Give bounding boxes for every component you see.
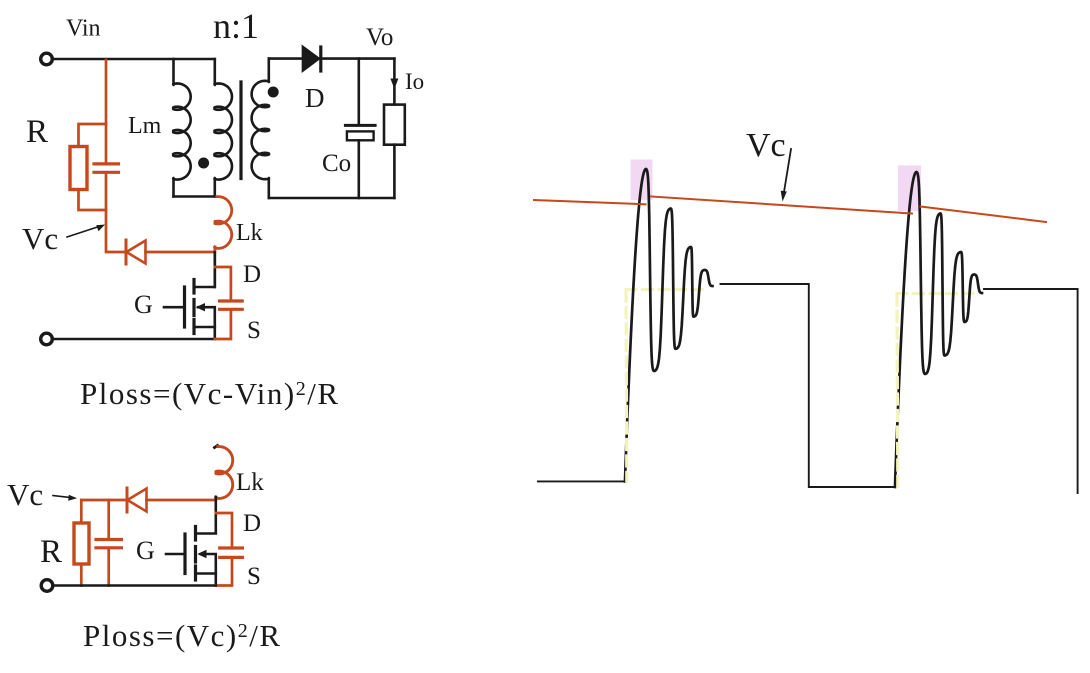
waveform square wave (538, 480, 625, 482)
svg-text:G: G (136, 536, 155, 565)
waveform ringing pulse 2 (895, 172, 982, 487)
wire Vin rail (53, 58, 215, 61)
wire bottom rail (53, 338, 215, 341)
svg-text:D: D (305, 83, 325, 113)
transistor Q1 MOSFET (164, 253, 215, 340)
transformer secondary winding (252, 59, 269, 198)
capacitor across MOSFET (bottom circuit) (216, 513, 232, 586)
svg-text:Lk: Lk (236, 469, 264, 496)
svg-text:Vc: Vc (7, 477, 43, 512)
svg-text:n:1: n:1 (213, 6, 259, 46)
svg-text:Vo: Vo (366, 24, 393, 51)
wire diode to drain node (146, 251, 215, 254)
diode D output (black filled, pointing right) (302, 46, 319, 72)
svg-text:R: R (40, 534, 62, 570)
svg-text:Vc: Vc (22, 221, 58, 256)
capacitor Co (357, 59, 360, 124)
svg-text:G: G (134, 290, 153, 319)
wire secondary bottom rail (269, 197, 395, 200)
wire transformer primary bottom (174, 195, 215, 198)
svg-text:R: R (26, 114, 48, 150)
svg-text:Ploss=(Vc)2/R: Ploss=(Vc)2/R (83, 618, 282, 653)
dashed rising edge marker pulse 2 (895, 295, 899, 487)
svg-text:Io: Io (405, 69, 424, 94)
diode D snubber (orange, pointing left) (125, 240, 128, 264)
dashed rising edge marker pulse 1 (624, 291, 628, 481)
highlight box spike 2 (898, 165, 921, 211)
svg-text:Ploss=(Vc-Vin)2/R: Ploss=(Vc-Vin)2/R (80, 376, 340, 411)
inductor Lk (leakage) (215, 197, 232, 249)
wire secondary top rail (269, 57, 395, 60)
transformer primary dot (198, 158, 209, 169)
svg-text:D: D (243, 510, 261, 537)
svg-text:S: S (247, 317, 261, 344)
waveform ringing pulse 1 (625, 169, 713, 481)
svg-text:Lk: Lk (236, 220, 263, 246)
svg-text:Co: Co (322, 150, 351, 177)
input terminal top (41, 53, 53, 65)
transformer core bar (239, 82, 242, 179)
dashed level line pulse 1 (626, 288, 705, 291)
highlight box spike 1 (631, 160, 653, 201)
transistor Q2 MOSFET (bottom circuit) (166, 527, 216, 586)
capacitor C snubber top plates (94, 164, 119, 172)
inductor Lm winding (173, 59, 191, 197)
resistor R branch wires (79, 124, 107, 210)
dashed level line pulse 2 (897, 292, 973, 295)
wire Lk to drain (bottom circuit) (215, 497, 218, 533)
annotation arrow Vc (bottom) (53, 496, 70, 498)
annotation arrow Vc (67, 227, 99, 238)
Vc envelope line segment 3 (921, 207, 1047, 223)
terminal (bottom circuit) (41, 580, 53, 592)
resistor R body (70, 147, 87, 190)
wire snubber vertical from Vin (105, 60, 108, 162)
annotation arrow Vc (waveform) (784, 149, 791, 192)
Vc envelope line segment 2 (651, 197, 912, 214)
wire bottom rail (bottom circuit) (53, 584, 216, 587)
svg-text:Vin: Vin (66, 16, 101, 42)
resistor load (393, 80, 396, 198)
wire below snubber cap to Vc node (106, 174, 126, 252)
arrow Io current (393, 59, 396, 80)
diode (bottom circuit, orange, pointing left) (126, 488, 129, 512)
transformer secondary dot (268, 87, 279, 98)
svg-text:Lm: Lm (128, 113, 162, 139)
Vc envelope line segment 1 (534, 200, 646, 204)
wire Vc top rail (bottom circuit) (81, 499, 127, 502)
input terminal bottom (41, 333, 53, 345)
svg-text:D: D (243, 261, 261, 288)
capacitor across MOSFET (orange) (215, 267, 231, 339)
svg-text:S: S (247, 563, 261, 590)
transformer primary winding (215, 59, 233, 197)
svg-text:Vc: Vc (746, 127, 786, 164)
capacitor (bottom circuit R parallel) (107, 500, 110, 586)
wire Lk bottom to drain (213, 247, 216, 253)
inductor Lk (bottom circuit) (215, 446, 218, 448)
